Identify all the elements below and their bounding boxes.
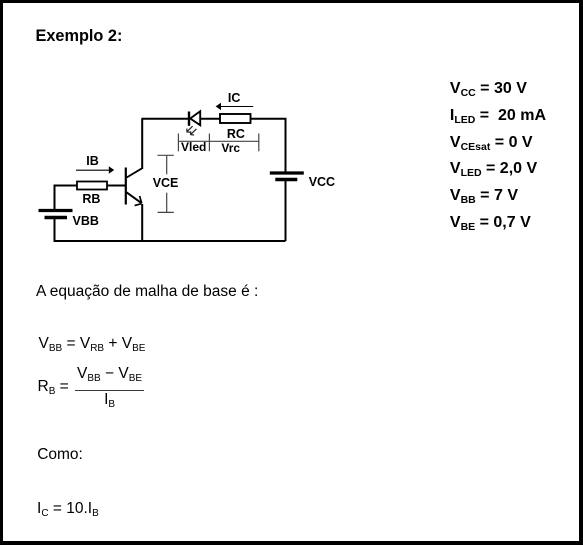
label VBB: [73, 214, 99, 228]
transistor Q1 base bar: [125, 168, 127, 205]
label IB: [86, 154, 99, 168]
wire: RC to right corner and down to VCC: [251, 118, 286, 172]
LED D1 light arrows: [187, 126, 197, 135]
wire: LED to RC: [200, 118, 220, 120]
label Vled: [181, 140, 206, 154]
equation VBB = VRB + VBE: [39, 335, 146, 353]
wire: emitter vertical down to bottom rail: [141, 204, 143, 241]
LED D1 cathode bar: [188, 112, 190, 126]
equation RB = (VBB - VBE)/IB: [38, 365, 145, 409]
label RC: [227, 127, 245, 141]
transistor Q1 emitter diagonal with arrow: [127, 192, 142, 205]
label VCE: [153, 176, 179, 190]
wire: VCC to bottom rail: [285, 181, 287, 241]
wire: collector vertical up: [141, 119, 143, 170]
current arrow IC: [216, 103, 254, 110]
paragraph Como: [37, 446, 83, 464]
heading "Exemplo 2:": [36, 27, 123, 46]
label VCC: [309, 175, 335, 189]
resistor RC: [220, 114, 251, 123]
wire: bottom rail: [55, 240, 286, 242]
equation IC = 10.IB: [37, 500, 99, 518]
wire: top rail to LED: [142, 118, 189, 120]
label IC: [228, 91, 241, 105]
measurement VCE dimension lines: [158, 155, 174, 212]
wire: base wire left segment: [54, 185, 78, 187]
resistor RB: [77, 182, 107, 190]
transistor Q1 collector diagonal: [127, 168, 143, 177]
wire: VBB bottom to bottom rail: [54, 219, 56, 243]
label RB: [82, 192, 100, 206]
label Vrc: [221, 141, 240, 155]
battery VBB: [39, 211, 73, 218]
measurement Vled/Vrc dimension lines: [178, 134, 258, 152]
paragraph: [36, 283, 258, 301]
current arrow IB: [76, 166, 114, 173]
battery VCC: [270, 173, 304, 180]
wire: RB to transistor base: [107, 185, 125, 187]
LED D1 triangle: [190, 111, 200, 125]
values list: [450, 76, 546, 236]
wire: left vertical from VBB to RB level: [54, 186, 56, 210]
